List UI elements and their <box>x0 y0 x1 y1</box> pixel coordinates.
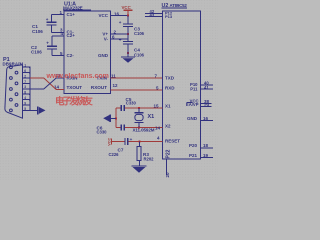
pin 20 stub (bottom) <box>166 159 168 175</box>
junction <box>138 107 140 109</box>
capacitor C4 <box>119 34 145 57</box>
svg-text:C330: C330 <box>97 129 108 134</box>
IC U1 designator label <box>63 1 91 10</box>
wire DB9 pin2 to crossing (red net) <box>30 77 44 79</box>
svg-text:www.elecfans.com: www.elecfans.com <box>46 73 109 80</box>
svg-text:RESET: RESET <box>165 139 180 144</box>
junction <box>139 140 141 142</box>
capacitor C1 <box>32 15 57 34</box>
svg-text:P13: P13 <box>165 14 173 19</box>
svg-text:6: 6 <box>24 69 26 73</box>
svg-text:1: 1 <box>24 64 26 68</box>
junctions on bus <box>29 67 30 106</box>
svg-text:AT89C52: AT89C52 <box>170 3 188 8</box>
junction <box>127 33 129 35</box>
svg-text:GND: GND <box>187 116 198 121</box>
pin 1 wire <box>52 14 65 16</box>
IC U1 MAX232E box <box>64 11 111 94</box>
pin 5 wire <box>52 55 64 57</box>
capacitor C3 <box>119 16 145 36</box>
pin 42 stub P12 <box>145 13 163 15</box>
pin 38 wire <box>201 103 212 105</box>
svg-text:C106: C106 <box>32 29 43 34</box>
svg-text:16: 16 <box>203 116 209 121</box>
svg-text:TXD: TXD <box>165 75 175 80</box>
svg-text:C2+: C2+ <box>67 33 76 38</box>
pin 13 wire <box>56 77 64 79</box>
wire RXOUT to U2 RXD (red net) <box>111 89 163 91</box>
svg-text:C106: C106 <box>134 52 145 57</box>
svg-text:12: 12 <box>113 83 119 88</box>
P1 bus wire <box>29 67 31 110</box>
pin 41 wire <box>201 88 214 90</box>
svg-text:7: 7 <box>24 80 26 84</box>
pin 16 wire <box>111 15 129 17</box>
svg-text:VCC: VCC <box>98 13 108 18</box>
pin 19 wire <box>201 157 214 159</box>
wire X2 pin (red net) <box>116 127 121 129</box>
pin 3 wire <box>52 31 65 33</box>
connector P1 label <box>3 57 24 67</box>
svg-text:R202: R202 <box>144 156 155 161</box>
power VCC symbol <box>122 5 133 15</box>
capacitor C2 <box>31 36 57 56</box>
svg-text:19: 19 <box>203 153 209 158</box>
junction <box>127 52 129 54</box>
svg-text:C226: C226 <box>109 152 120 157</box>
svg-text:41: 41 <box>204 85 209 90</box>
wire TXIN to U2 TXD (red net) <box>111 77 163 79</box>
resistor R3 <box>137 141 154 161</box>
svg-text:29: 29 <box>204 103 210 108</box>
P1 pin wires <box>23 67 44 110</box>
pin 4 wire <box>52 35 64 37</box>
svg-text:+: + <box>46 40 49 45</box>
svg-text:P22: P22 <box>166 149 172 158</box>
junction <box>138 127 140 129</box>
svg-text:X1: X1 <box>165 104 171 109</box>
svg-text:2: 2 <box>24 74 26 78</box>
svg-text:RXOUT: RXOUT <box>91 85 107 90</box>
wire crossing diagonal navy <box>44 78 56 89</box>
wire rail (red) <box>115 108 117 128</box>
svg-text:TXOUT: TXOUT <box>67 85 83 90</box>
pin 14 wire (red net) <box>56 89 64 91</box>
svg-text:P20: P20 <box>189 143 198 148</box>
svg-text:+: + <box>46 17 49 22</box>
svg-text:9: 9 <box>24 101 26 105</box>
svg-text:4: 4 <box>24 96 26 100</box>
ground (under R3) <box>132 161 147 173</box>
svg-text:5: 5 <box>24 107 26 111</box>
svg-text:P11: P11 <box>190 87 198 92</box>
pin 18 wire <box>201 147 214 149</box>
ground (DB9, pointing right) <box>37 106 46 114</box>
P1 pin numbers <box>24 64 26 111</box>
wire crossing diagonal red <box>44 78 56 90</box>
svg-text:+: + <box>119 38 122 43</box>
svg-text:20: 20 <box>165 172 170 178</box>
IC U2 label <box>162 3 188 9</box>
capacitor C5 <box>121 97 137 111</box>
capacitor C7 <box>109 137 133 157</box>
wire RESET (red net) <box>129 140 163 142</box>
svg-text:X2: X2 <box>165 124 171 129</box>
ground (under C4) <box>121 53 135 63</box>
svg-text:RXD: RXD <box>165 86 175 91</box>
svg-text:14: 14 <box>155 126 161 131</box>
P1 pin circles <box>10 66 18 112</box>
svg-text:14: 14 <box>54 85 60 90</box>
svg-text:电子发烧友: 电子发烧友 <box>55 95 93 107</box>
wire X1 pin (red net) <box>125 107 163 109</box>
connector P1 DB9 body <box>5 65 23 118</box>
svg-text:15: 15 <box>154 104 160 109</box>
pin 43 stub P13 <box>145 15 163 17</box>
svg-text:P21: P21 <box>189 153 198 158</box>
power VCC (rotated, reset circuit) <box>108 138 125 146</box>
svg-text:GND: GND <box>98 53 109 58</box>
svg-text:+: + <box>119 20 122 25</box>
junction <box>127 14 129 16</box>
svg-text:16: 16 <box>114 11 120 16</box>
svg-text:43: 43 <box>150 12 155 17</box>
svg-text:X11.0592M: X11.0592M <box>133 128 155 133</box>
IC U2 AT89C52 box <box>163 11 201 159</box>
svg-text:18: 18 <box>203 143 209 148</box>
pin 6 wire <box>111 38 129 40</box>
svg-text:X1: X1 <box>148 114 155 120</box>
svg-text:8: 8 <box>24 91 26 95</box>
svg-text:V-: V- <box>104 36 109 41</box>
svg-text:VCC: VCC <box>122 5 132 10</box>
pin 16 wire <box>201 120 214 122</box>
svg-text:11: 11 <box>111 73 116 78</box>
capacitor C6 <box>97 125 125 135</box>
svg-text:3: 3 <box>24 85 26 89</box>
ground (left of crystal, pointing left) <box>103 115 116 122</box>
pin 40 wire <box>201 84 214 86</box>
svg-text:C330: C330 <box>126 101 137 106</box>
svg-text:C106: C106 <box>134 31 145 36</box>
svg-text:C2-: C2- <box>67 53 75 58</box>
svg-text:C1+: C1+ <box>67 12 76 17</box>
pin 29 wire <box>201 105 212 107</box>
pin 2 wire <box>111 33 129 35</box>
svg-text:C106: C106 <box>31 50 42 55</box>
junction <box>115 117 117 119</box>
wire C5 left to rail (red) <box>116 107 121 109</box>
crystal X1 <box>133 108 155 133</box>
